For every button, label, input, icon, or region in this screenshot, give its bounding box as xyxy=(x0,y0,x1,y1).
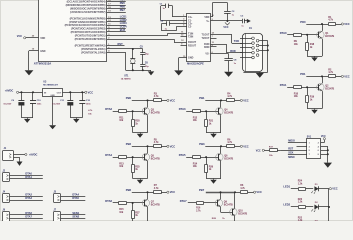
wire xyxy=(205,146,221,148)
ground xyxy=(213,179,215,180)
power VCC xyxy=(240,99,242,101)
wire xyxy=(113,202,119,204)
resistor R22 xyxy=(299,224,306,227)
svg-text:4.7k: 4.7k xyxy=(227,95,232,98)
wire X1 shield xyxy=(243,72,267,74)
svg-text:VS-: VS- xyxy=(205,53,209,56)
X1 pin 7 xyxy=(252,51,255,54)
ground U2 xyxy=(178,58,180,71)
svg-text:BC547B: BC547B xyxy=(224,112,233,115)
wire LED rail xyxy=(328,189,330,221)
svg-text:BC547B: BC547B xyxy=(325,88,334,91)
resistor R4 xyxy=(221,100,227,102)
svg-text:PB6: PB6 xyxy=(120,5,126,9)
capacitor C2 xyxy=(224,11,231,13)
wire J6 pin2 net DTA7 xyxy=(10,218,43,220)
svg-text:BC547B: BC547B xyxy=(224,158,233,161)
svg-text:VCC: VCC xyxy=(243,98,249,102)
wire J4 pin1 net DTA2 xyxy=(10,196,43,198)
svg-text:8: 8 xyxy=(212,45,213,47)
wire xyxy=(132,146,148,148)
wire U2 pin C2- xyxy=(176,26,187,28)
ground caps right xyxy=(76,118,78,119)
wire xyxy=(264,150,269,152)
wire X1 tie xyxy=(259,50,268,52)
wire xyxy=(132,192,148,194)
wire xyxy=(291,225,298,227)
LED D3 xyxy=(314,223,318,228)
svg-text:LCD3: LCD3 xyxy=(120,21,127,25)
svg-text:DTA2: DTA2 xyxy=(25,193,32,197)
IC U3 regulator MC78M05 xyxy=(43,89,63,97)
wire xyxy=(306,225,314,227)
svg-text:PB7: PB7 xyxy=(199,188,205,192)
svg-text:(PCINT11/RXD1/INT0/PD0): (PCINT11/RXD1/INT0/PD0) xyxy=(75,38,106,41)
resistor R3 xyxy=(148,100,154,102)
X1 pin 9 xyxy=(252,56,255,59)
wire xyxy=(127,202,145,204)
svg-text:DTA0: DTA0 xyxy=(25,172,32,176)
wire J7 pin2 net SEN2 xyxy=(61,218,86,220)
svg-text:VCC: VCC xyxy=(17,35,22,38)
svg-text:1: 1 xyxy=(183,15,184,17)
svg-text:DTA0: DTA0 xyxy=(280,31,287,35)
svg-text:T2OUT: T2OUT xyxy=(202,37,210,40)
svg-text:VCC: VCC xyxy=(332,187,338,191)
wire xyxy=(306,206,314,208)
wire xyxy=(277,150,281,152)
wire SV1 pin3 xyxy=(297,146,308,148)
wire xyxy=(301,87,319,89)
wire Q10 collector xyxy=(234,192,236,208)
svg-text:VDD: VDD xyxy=(40,37,45,40)
svg-text:4.7k: 4.7k xyxy=(240,187,245,190)
svg-text:DTA7: DTA7 xyxy=(180,199,187,203)
svg-text:+9VDC: +9VDC xyxy=(5,88,14,92)
svg-text:DTA7: DTA7 xyxy=(25,214,32,218)
ground sideways xyxy=(244,20,247,22)
wire U1 RXD to U2 R1OUT xyxy=(107,39,174,41)
crystal XT1 xyxy=(132,49,134,59)
wire U2 pin C2+ xyxy=(170,23,187,25)
wire X1 tie vertical xyxy=(267,41,269,72)
wire xyxy=(204,202,218,204)
resistor R25 xyxy=(132,157,134,165)
svg-text:GND: GND xyxy=(40,50,46,53)
svg-text:OUT: OUT xyxy=(57,92,62,94)
wire xyxy=(322,76,324,83)
svg-text:DTA4: DTA4 xyxy=(105,153,112,157)
capacitor C1 xyxy=(172,6,174,17)
power VCC xyxy=(254,191,256,193)
ground xyxy=(140,133,142,134)
capacitor C12 xyxy=(82,92,84,101)
svg-text:DTA5: DTA5 xyxy=(72,196,79,200)
svg-text:VCC: VCC xyxy=(170,144,176,148)
svg-text:10k: 10k xyxy=(119,165,124,168)
wire xyxy=(147,100,149,107)
resistor R13 xyxy=(119,156,127,159)
svg-text:10k: 10k xyxy=(294,95,299,98)
resistor R27 xyxy=(132,203,134,211)
resistor R14 xyxy=(193,156,201,159)
svg-text:ATTINY2313A: ATTINY2313A xyxy=(34,62,51,66)
svg-text:PD0: PD0 xyxy=(300,20,306,24)
resistor R15 xyxy=(119,202,127,205)
svg-text:PB1: PB1 xyxy=(199,96,205,100)
wire xyxy=(186,111,192,113)
svg-text:15: 15 xyxy=(183,56,185,58)
resistor R23 xyxy=(299,206,306,209)
wire Q10 emitter xyxy=(234,216,236,221)
svg-text:T1OUT: T1OUT xyxy=(202,33,210,36)
resistor R18 xyxy=(307,35,309,43)
svg-text:SEN2: SEN2 xyxy=(72,214,79,218)
svg-text:DTA6: DTA6 xyxy=(105,199,112,203)
svg-text:LED2: LED2 xyxy=(283,203,290,207)
resistor R19 xyxy=(307,87,309,95)
wire caps gnd right xyxy=(70,117,82,119)
svg-text:(PCINT8/XTAL1/PA0): (PCINT8/XTAL1/PA0) xyxy=(81,51,106,54)
svg-text:10k: 10k xyxy=(193,119,198,122)
wire TXD xyxy=(211,34,232,36)
svg-text:10k: 10k xyxy=(119,119,124,122)
svg-text:MAX232ACPE: MAX232ACPE xyxy=(187,63,204,66)
power VCC xyxy=(341,23,343,25)
ground X1 xyxy=(256,73,264,78)
wire xyxy=(147,146,149,153)
wire U1 pin 13 net LCD1 xyxy=(107,18,126,20)
ground xyxy=(213,133,215,134)
svg-text:4.7k: 4.7k xyxy=(154,141,159,144)
svg-text:DTA5: DTA5 xyxy=(179,153,186,157)
svg-text:VCC: VCC xyxy=(344,22,350,26)
svg-text:10: 10 xyxy=(181,35,183,37)
svg-text:VCC: VCC xyxy=(344,74,350,78)
svg-text:DTA3: DTA3 xyxy=(25,196,32,200)
svg-text:14.74MHz: 14.74MHz xyxy=(121,78,132,81)
resistor R6 xyxy=(221,146,227,148)
svg-text:2: 2 xyxy=(212,19,213,21)
resistor R9 xyxy=(294,34,302,37)
svg-text:(PCINT4/OC1B/T1/ADC6/PD6): (PCINT4/OC1B/T1/ADC6/PD6) xyxy=(71,31,106,34)
resistor R16 xyxy=(197,202,204,205)
transistor Q4 xyxy=(218,108,220,114)
resistor R11 xyxy=(119,110,127,113)
wire U2 GND xyxy=(179,57,187,59)
svg-text:6: 6 xyxy=(212,52,213,54)
svg-text:1.2k: 1.2k xyxy=(298,182,303,185)
power VCC xyxy=(341,75,343,77)
svg-text:PB5: PB5 xyxy=(120,1,126,5)
svg-text:PB2: PB2 xyxy=(126,142,132,146)
LED D2 xyxy=(314,205,318,210)
wire X1 tie xyxy=(259,45,268,47)
IC U1 ATTINY2313 xyxy=(39,0,107,62)
capacitor C3 xyxy=(242,19,244,23)
svg-text:VCC: VCC xyxy=(170,98,176,102)
resistor R8 xyxy=(235,192,240,194)
node +9VDC out xyxy=(25,153,27,155)
wire U2 pin C1- xyxy=(161,20,187,22)
wire xyxy=(287,87,293,89)
wire xyxy=(127,111,145,113)
wire SV1 VCC xyxy=(321,142,325,144)
svg-text:MISO: MISO xyxy=(288,156,294,159)
svg-text:R16: R16 xyxy=(196,208,201,210)
svg-text:RST: RST xyxy=(118,42,124,46)
svg-text:VCC: VCC xyxy=(243,144,249,148)
wire J7 pin1 net SEN1 xyxy=(61,214,86,216)
ground crystal xyxy=(150,70,152,71)
wire J2 pin2 net DTA1 xyxy=(10,178,43,180)
wire J5 pin1 net DTA4 xyxy=(61,196,86,198)
wire pin 10 GND xyxy=(29,50,39,52)
svg-text:10k: 10k xyxy=(294,43,299,46)
wire xyxy=(113,111,119,113)
wire U1 pin 16 net PB4 xyxy=(107,1,126,3)
svg-text:MC78M05CDT: MC78M05CDT xyxy=(43,85,58,87)
wire RST xyxy=(281,150,307,152)
capacitor C6 xyxy=(142,54,144,64)
svg-text:DTA4: DTA4 xyxy=(72,193,79,197)
wire crystal bottom xyxy=(126,70,151,72)
svg-text:(UCSK/SCL/SCK/PCINT7/PB7): (UCSK/SCL/SCK/PCINT7/PB7) xyxy=(70,11,106,14)
capacitor C5 xyxy=(142,49,144,53)
resistor R1 xyxy=(322,24,328,26)
wire J6 pin1 net DTA6 xyxy=(10,214,43,216)
capacitor C11 electrolytic xyxy=(70,92,72,100)
svg-text:VCC: VCC xyxy=(321,136,326,138)
svg-text:VCC: VCC xyxy=(256,150,261,152)
power VCC xyxy=(240,145,242,147)
svg-text:RST: RST xyxy=(288,148,293,151)
ground xyxy=(314,56,316,57)
wire V+ rail xyxy=(211,20,243,22)
wire xyxy=(322,24,324,31)
transistor Q7 xyxy=(144,200,146,206)
transistor Q10 xyxy=(232,209,234,215)
svg-text:SEN1: SEN1 xyxy=(72,211,79,215)
resistor R2 xyxy=(322,76,328,78)
svg-text:7: 7 xyxy=(212,36,213,38)
power VCC xyxy=(167,99,169,101)
svg-text:XT1: XT1 xyxy=(124,76,129,78)
wire xyxy=(132,100,148,102)
svg-text:2.7k: 2.7k xyxy=(196,210,201,212)
svg-text:PB0: PB0 xyxy=(126,96,132,100)
svg-text:DTA2: DTA2 xyxy=(105,107,112,111)
svg-text:T2IN: T2IN xyxy=(188,35,193,38)
wire U2 R2IN stub xyxy=(211,46,217,48)
svg-text:100n: 100n xyxy=(86,103,91,105)
svg-text:SCK: SCK xyxy=(288,151,293,154)
wire xyxy=(200,157,218,159)
wire xyxy=(318,188,329,190)
IC U2 MAX232 xyxy=(187,14,211,62)
resistor R17 xyxy=(270,149,278,152)
ground C8 xyxy=(228,61,230,72)
resistor R24 xyxy=(299,188,306,191)
wire caps gnd left xyxy=(21,117,33,119)
wire U1 pin 8 net BUZ xyxy=(107,31,126,33)
svg-text:PD1: PD1 xyxy=(300,72,306,76)
wire output rail xyxy=(63,92,85,94)
capacitor C9 electrolytic xyxy=(21,92,23,100)
wire U2 pin C1+ xyxy=(172,16,187,18)
resistor R7 xyxy=(148,192,154,194)
svg-text:R2IN: R2IN xyxy=(204,46,210,49)
svg-text:10k: 10k xyxy=(193,165,198,168)
svg-text:10u/16V: 10u/16V xyxy=(3,103,11,105)
power VCC tap xyxy=(225,22,230,25)
ground xyxy=(140,224,142,225)
transistor Q3 xyxy=(144,108,146,114)
svg-text:15p: 15p xyxy=(145,66,149,68)
svg-text:VCC: VCC xyxy=(223,26,228,29)
wire U1 pin 17 net PB5 xyxy=(107,5,126,7)
power VCC SV1 xyxy=(323,138,325,140)
wire xyxy=(113,157,119,159)
svg-text:1.2k: 1.2k xyxy=(298,219,303,221)
transistor Q6 xyxy=(218,154,220,160)
wire U2 T2OUT stub xyxy=(211,38,217,40)
X1 pin 1 xyxy=(252,37,255,40)
wire U1 pin 9 net LCD4 xyxy=(107,28,126,30)
resistor R10 xyxy=(294,86,302,89)
svg-text:DTA6: DTA6 xyxy=(25,211,32,215)
wire SV1 gnd rows xyxy=(321,146,328,148)
X1 pin 8 xyxy=(256,54,259,57)
wire thick collector net xyxy=(206,192,235,194)
wire XTAL1 xyxy=(107,52,126,54)
wire J2 pin1 net DTA0 xyxy=(10,175,43,177)
X1 pin 6 xyxy=(256,49,259,52)
wire xyxy=(127,157,145,159)
wire xyxy=(147,192,149,199)
capacitor C10 xyxy=(32,92,34,101)
node RST xyxy=(107,45,125,47)
svg-text:LED1: LED1 xyxy=(283,184,290,188)
svg-text:VCC: VCC xyxy=(88,90,94,94)
power VCC LEDs xyxy=(329,188,331,190)
svg-text:9: 9 xyxy=(181,43,182,45)
wire xyxy=(291,206,298,208)
wire U1 pin 11 net LCD3 xyxy=(107,25,126,27)
wire U1 pin 18 net PB6 xyxy=(107,8,126,10)
wire MOSI xyxy=(288,142,307,144)
wire U2 T2IN stub xyxy=(181,36,187,38)
wire J1 pin1 xyxy=(14,154,25,156)
svg-text:10u/16V: 10u/16V xyxy=(52,103,60,105)
wire xyxy=(306,24,322,26)
svg-text:SV1: SV1 xyxy=(307,136,312,138)
capacitor C4 xyxy=(166,21,168,25)
wire U2 R2OUT stub xyxy=(181,45,187,47)
svg-text:13: 13 xyxy=(212,42,214,44)
resistor R26 xyxy=(206,157,208,165)
wire XTAL2 xyxy=(107,48,143,50)
svg-text:VCC: VCC xyxy=(170,190,176,194)
wire U2 VDD to C2 xyxy=(211,16,213,18)
svg-text:1.2k: 1.2k xyxy=(298,201,303,204)
resistor R20 xyxy=(132,111,134,119)
transistor Q9 xyxy=(217,200,219,206)
ground U3 xyxy=(52,97,54,126)
svg-text:RXD: RXD xyxy=(230,49,236,53)
svg-text:BC547B: BC547B xyxy=(238,212,247,215)
wire pin 20 VDD xyxy=(26,37,39,39)
svg-text:4.7k: 4.7k xyxy=(154,95,159,98)
svg-text:Q10: Q10 xyxy=(238,210,243,212)
wire xyxy=(318,206,329,208)
svg-text:3: 3 xyxy=(183,19,184,21)
power VCC xyxy=(85,91,87,93)
wire J1 pin2 xyxy=(14,157,20,159)
wire xyxy=(306,188,314,190)
ground J1 xyxy=(19,160,21,163)
wire xyxy=(205,100,221,102)
ground SV1 xyxy=(324,163,332,168)
X1 pin 2 xyxy=(256,39,259,42)
wire input rail xyxy=(19,92,43,94)
ground xyxy=(314,109,316,110)
wire U1 pin 12 net LCD2 xyxy=(107,21,126,23)
svg-text:4.7k: 4.7k xyxy=(154,187,159,190)
svg-text:C2-: C2- xyxy=(188,25,192,28)
svg-text:BC547B: BC547B xyxy=(151,112,160,115)
svg-text:BUZ: BUZ xyxy=(120,28,126,32)
wire xyxy=(200,111,218,113)
wire RXD xyxy=(211,44,227,46)
wire Q9 emitter to Q10 base xyxy=(220,207,222,212)
svg-text:15p: 15p xyxy=(145,54,149,56)
svg-text:BC547B: BC547B xyxy=(325,35,334,38)
X1 pin 4 xyxy=(256,44,259,47)
wire J5 pin2 net DTA5 xyxy=(61,200,86,202)
X1 pin 3 xyxy=(252,42,255,45)
svg-text:4.7k: 4.7k xyxy=(328,71,333,74)
svg-text:VCC: VCC xyxy=(256,190,262,194)
svg-text:PB7: PB7 xyxy=(120,8,126,12)
transistor Q2 xyxy=(318,84,320,90)
transistor Q5 xyxy=(144,154,146,160)
svg-text:DTA1: DTA1 xyxy=(280,83,287,87)
svg-text:100n: 100n xyxy=(37,103,42,105)
svg-text:DTA3: DTA3 xyxy=(179,107,186,111)
svg-text:BC547B: BC547B xyxy=(224,203,233,206)
svg-text:TXD: TXD xyxy=(234,39,239,43)
wire Q9 collector xyxy=(220,192,222,199)
svg-text:5: 5 xyxy=(183,25,184,27)
svg-text:PB3: PB3 xyxy=(199,142,205,146)
wire U1 TXD to U2 T1IN xyxy=(107,35,168,37)
svg-text:R2OUT: R2OUT xyxy=(188,44,197,47)
ground caps left xyxy=(27,118,29,119)
wire J4 pin2 net DTA3 xyxy=(10,200,43,202)
svg-text:PB6: PB6 xyxy=(126,188,132,192)
resistor R21 xyxy=(206,111,208,119)
resistor R5 xyxy=(148,146,154,148)
wire xyxy=(186,157,192,159)
wire xyxy=(220,146,222,153)
svg-text:DTA1: DTA1 xyxy=(25,175,32,179)
wire xyxy=(301,34,319,36)
svg-text:10k: 10k xyxy=(119,211,124,214)
ground U1 xyxy=(28,51,30,71)
svg-text:BC547B: BC547B xyxy=(151,158,160,161)
wire U1 pin 19 net PB7 xyxy=(107,12,126,14)
